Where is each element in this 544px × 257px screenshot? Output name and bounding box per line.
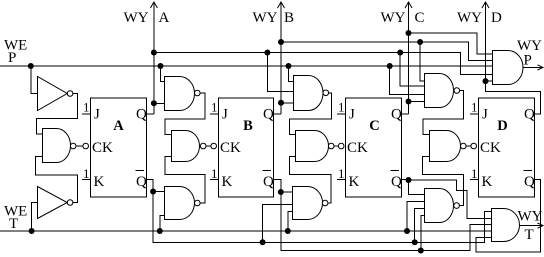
- junction WE T tap to G7: [285, 228, 291, 234]
- wire WY D output line (QD): [485, 2, 487, 81]
- wire WE P to U1 input: [31, 66, 38, 94]
- wire G7 output to G6: [290, 157, 332, 204]
- wire WE T into G10: [407, 202, 425, 232]
- wire QA stub: [146, 113, 154, 115]
- svg-text:J: J: [482, 107, 488, 123]
- wire QA into G2: [154, 102, 165, 104]
- junction QA feed tap to G8: [397, 50, 403, 56]
- svg-text:D: D: [497, 118, 507, 134]
- svg-text:CK: CK: [220, 140, 241, 156]
- wire WY C output line (QC): [408, 2, 410, 114]
- junction QB tap to G5: [278, 100, 284, 106]
- wire G4 output to G3: [165, 157, 205, 204]
- svg-text:J: J: [222, 107, 228, 123]
- svg-text:P: P: [8, 50, 16, 66]
- wire G3 output to CK of B: [206, 145, 211, 147]
- svg-text:Q: Q: [136, 174, 147, 190]
- wire G8 output to G9: [423, 91, 464, 135]
- wire QC into G8: [409, 101, 426, 103]
- svg-text:Q: Q: [391, 107, 402, 123]
- svg-text:J: J: [94, 107, 100, 123]
- wire QA into G5: [267, 53, 293, 92]
- svg-text:K: K: [482, 174, 493, 190]
- nand G4 (count-down stage B): [165, 187, 195, 220]
- junction QbarA tap to G4: [150, 189, 156, 195]
- junction QC to carry feed: [406, 30, 412, 36]
- svg-text:D: D: [491, 10, 502, 26]
- wire QB into G5: [281, 102, 293, 104]
- wire U1 output to G1 input: [36, 94, 77, 135]
- junction QB to carry feed: [278, 39, 284, 45]
- wire QbarB into G7: [281, 191, 293, 193]
- wire WE T to U2 input: [32, 203, 38, 232]
- wire G9 output to CK of D: [466, 145, 471, 147]
- wire QbarA into G10: [415, 209, 425, 243]
- junction WE P tap to G8: [387, 63, 393, 69]
- svg-text:1: 1: [83, 166, 90, 181]
- wire WE T into G7: [288, 212, 293, 231]
- wire QbarA into G4: [153, 191, 165, 193]
- junction QA tap to G2: [151, 100, 157, 106]
- wire QC stub: [402, 113, 409, 115]
- wire U2 output to G1 input: [36, 157, 78, 203]
- svg-text:1: 1: [338, 100, 345, 115]
- svg-text:J: J: [349, 107, 355, 123]
- and gate G11 (carry out): [493, 51, 524, 85]
- svg-text:K: K: [222, 174, 233, 190]
- junction WE P tap to G5: [286, 63, 292, 69]
- wire QC feed rail to carry gate: [409, 33, 493, 54]
- svg-text:A: A: [159, 10, 170, 26]
- wire QB feed rail to carry gate: [281, 42, 492, 61]
- flip-flop A (JK): [82, 98, 147, 197]
- junction QbarA feed tap to G7: [260, 239, 266, 245]
- junction QbarC: [406, 177, 412, 183]
- svg-text:P: P: [524, 53, 532, 69]
- junction QC tap to G8: [406, 99, 412, 105]
- nand G10 (count-down stage D): [425, 189, 454, 223]
- junction WE T tap to G10: [404, 228, 410, 234]
- flip-flop D (JK): [470, 98, 535, 197]
- wire G2 output to G3: [165, 93, 205, 134]
- junction QbarB feed tap to G10: [418, 248, 424, 254]
- flip-flop C (JK): [337, 98, 402, 197]
- inverter U1 (P path): [38, 77, 73, 111]
- nand G5 (count-up stage C): [294, 76, 324, 111]
- wire WE T rail (enable T) straight into borrow gate: [0, 230, 492, 232]
- svg-text:WY: WY: [457, 10, 482, 26]
- svg-text:WY: WY: [253, 10, 278, 26]
- nand G2 (count-up stage B): [165, 77, 195, 111]
- wire QB stub: [274, 113, 282, 115]
- wire QbarD route to borrow gate: [476, 180, 541, 253]
- inverter U2 (T path): [38, 187, 73, 219]
- wire WY B output line (QB): [280, 2, 282, 114]
- and gate G12 (borrow out): [492, 209, 520, 242]
- svg-text:1: 1: [471, 166, 478, 181]
- wire WE T into G4: [160, 216, 165, 232]
- wire G6 output to CK of C: [334, 145, 338, 147]
- svg-text:K: K: [94, 174, 105, 190]
- wire QA feed rail to carry gate: [154, 53, 493, 75]
- svg-text:Q: Q: [524, 174, 535, 190]
- junction QbarB tap to G7: [278, 189, 284, 195]
- svg-text:Q: Q: [391, 174, 402, 190]
- nand G6 (clock C): [296, 131, 329, 162]
- wire QbarB feed rail to borrow gate: [274, 180, 492, 251]
- junction QbarA feed tap to G10: [412, 239, 418, 245]
- wire WY T output: [520, 225, 543, 227]
- svg-text:C: C: [415, 10, 425, 26]
- junction QA feed tap to G5: [264, 50, 270, 56]
- svg-text:1: 1: [83, 100, 90, 115]
- svg-text:WY: WY: [381, 10, 406, 26]
- nand G3 (clock B): [172, 131, 200, 162]
- junction WE T to inverter U2: [29, 228, 35, 234]
- wire QbarC stub: [402, 179, 409, 181]
- svg-text:A: A: [113, 118, 124, 134]
- wire QB into G8: [420, 42, 425, 81]
- junction QB feed tap to G8: [417, 39, 423, 45]
- nand G7 (count-down stage C): [293, 187, 323, 220]
- wire WE P into G2: [161, 66, 165, 82]
- wire G1 output to CK of A: [76, 145, 83, 147]
- wire WY P output: [523, 66, 542, 68]
- wire WE P into G5: [289, 66, 294, 81]
- svg-text:Q: Q: [263, 174, 274, 190]
- junction QD tap to carry gate: [483, 78, 489, 84]
- junction QA to carry feed: [151, 50, 157, 56]
- nand G8 (count-up stage D): [425, 74, 454, 108]
- flip-flop B (JK): [210, 98, 274, 197]
- svg-text:CK: CK: [480, 140, 501, 156]
- wire G5 output to G6: [290, 93, 332, 135]
- svg-text:K: K: [349, 174, 360, 190]
- nand G1 (clock A): [43, 129, 71, 163]
- wire QbarA into G7: [263, 205, 293, 243]
- svg-text:1: 1: [211, 166, 218, 181]
- wire QbarB into G10: [421, 216, 425, 251]
- junction WE P tap to G2: [158, 63, 164, 69]
- wire WE P into G8: [390, 66, 425, 95]
- nand G9 (clock D): [430, 131, 461, 162]
- svg-text:WY: WY: [518, 208, 543, 224]
- svg-text:1: 1: [471, 100, 478, 115]
- wire QbarA feed rail to borrow gate: [147, 180, 492, 243]
- svg-text:Q: Q: [524, 107, 535, 123]
- svg-text:CK: CK: [347, 140, 368, 156]
- wire QbarC into G10: [409, 180, 425, 195]
- svg-text:Q: Q: [136, 107, 147, 123]
- wire G10 output to G9: [422, 157, 463, 206]
- svg-text:T: T: [9, 216, 18, 232]
- svg-text:1: 1: [338, 166, 345, 181]
- svg-text:T: T: [525, 227, 534, 243]
- wire QD route to carry gate: [486, 81, 541, 114]
- svg-text:Q: Q: [263, 107, 274, 123]
- svg-text:CK: CK: [92, 140, 113, 156]
- junction WE T tap to G4: [157, 228, 163, 234]
- svg-text:WY: WY: [124, 10, 149, 26]
- svg-text:B: B: [284, 10, 294, 26]
- svg-text:C: C: [369, 118, 379, 134]
- wire QbarC staircase to borrow gate: [409, 180, 492, 218]
- wire WY A output line (QA): [153, 2, 155, 114]
- wire QA into G8: [400, 53, 425, 86]
- junction WE P to inverter U1: [28, 63, 34, 69]
- wire WE P rail (enable P) straight into carry gate: [0, 65, 492, 67]
- svg-text:B: B: [243, 118, 253, 134]
- svg-text:1: 1: [211, 100, 218, 115]
